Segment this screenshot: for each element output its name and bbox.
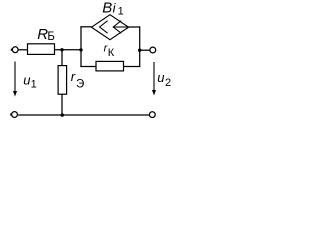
wire left rail vertical bbox=[80, 27, 82, 67]
svg-text:u: u bbox=[157, 70, 164, 85]
terminal bottom-right bbox=[149, 112, 155, 118]
node A (junction dot) bbox=[60, 48, 63, 51]
svg-text:2: 2 bbox=[165, 77, 171, 89]
wire rК to right rail bbox=[124, 66, 141, 68]
voltage arrow u1 bbox=[13, 62, 37, 97]
wire left rail to current source bbox=[80, 26, 91, 28]
wire from input terminal to RБ bbox=[18, 49, 27, 51]
svg-text:1: 1 bbox=[31, 78, 37, 90]
node right rail (junction dot) bbox=[138, 49, 141, 52]
wire rЭ to bottom rail bbox=[61, 94, 63, 115]
resistor rЭ bbox=[58, 66, 84, 95]
voltage arrow u2 bbox=[152, 62, 171, 96]
resistor RБ bbox=[28, 26, 55, 55]
bottom rail wire bbox=[18, 114, 149, 116]
wire right rail vertical bbox=[139, 26, 141, 66]
resistor rК bbox=[96, 43, 124, 71]
svg-text:1: 1 bbox=[118, 5, 124, 17]
svg-text:Б: Б bbox=[47, 31, 55, 43]
terminal bottom-left bbox=[10, 112, 17, 118]
terminal input top-left bbox=[11, 47, 18, 53]
svg-text:u: u bbox=[23, 73, 30, 88]
wire node A down to rЭ bbox=[61, 50, 63, 66]
node B (junction dot) bbox=[79, 48, 82, 51]
svg-text:Э: Э bbox=[76, 78, 84, 90]
current source Bi1 (diamond) bbox=[92, 0, 129, 40]
terminal output top-right bbox=[150, 47, 156, 53]
wire left rail to rК bbox=[80, 66, 96, 68]
wire RБ to node B bbox=[55, 49, 82, 51]
wire to output terminal bbox=[140, 49, 150, 51]
svg-text:К: К bbox=[108, 47, 115, 59]
node at bottom rail bbox=[61, 113, 64, 116]
wire current source to right rail bbox=[129, 26, 140, 28]
svg-text:В: В bbox=[102, 0, 112, 16]
